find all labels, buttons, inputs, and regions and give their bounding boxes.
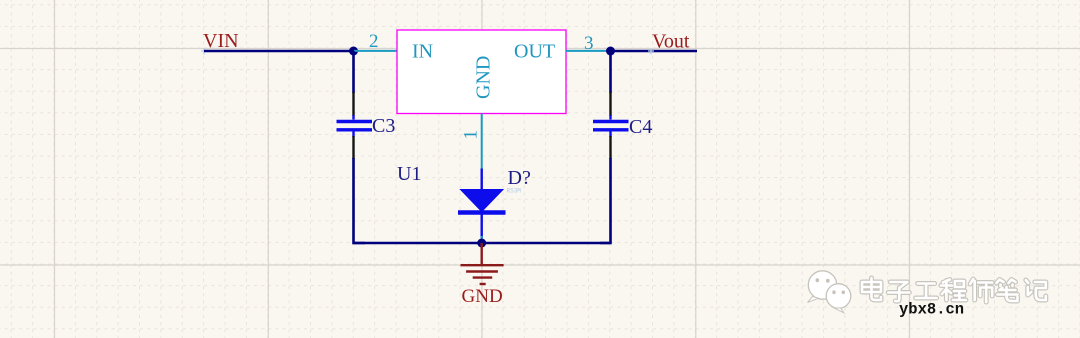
- capacitor C4 symbol: [593, 115, 629, 137]
- wire node B down to C4: [609, 51, 612, 93]
- svg-text:C4: C4: [629, 116, 652, 138]
- svg-text:GND: GND: [473, 56, 495, 99]
- node C junction: [477, 239, 486, 248]
- wire C4 down to bottom rail: [600, 158, 611, 243]
- diode cathode net stub (cyan): [481, 236, 483, 241]
- diode D? anode pin: [481, 169, 483, 191]
- svg-text:VIN: VIN: [203, 30, 239, 52]
- pin 1 line of U1 (GND pin): [481, 114, 483, 170]
- op-amp U1 body box: [397, 30, 566, 114]
- svg-text:D?: D?: [508, 167, 531, 189]
- net anchor cross VIN: [201, 48, 207, 55]
- capacitor C4 pin 2 (black): [609, 136, 611, 159]
- wire VIN to node A: [204, 50, 354, 53]
- node A junction: [349, 47, 358, 56]
- ground symbol: [461, 265, 504, 284]
- svg-text:Vout: Vout: [652, 31, 690, 53]
- capacitor C3 pin 1 (black): [352, 92, 354, 116]
- svg-text:U1: U1: [397, 163, 421, 185]
- diode D? symbol: [458, 190, 506, 213]
- svg-text:1: 1: [461, 130, 482, 140]
- diode D? cathode pin: [481, 214, 483, 238]
- svg-text:GND: GND: [462, 286, 503, 307]
- node B junction: [606, 47, 615, 56]
- capacitor C3 symbol: [337, 115, 373, 137]
- wire node A down to C3: [352, 51, 355, 93]
- wire C3 down to bottom rail: [354, 158, 366, 243]
- svg-text:C3: C3: [372, 115, 395, 137]
- ground wire segment: [481, 243, 483, 265]
- svg-text:ybx8.cn: ybx8.cn: [899, 301, 964, 319]
- capacitor C4 pin 1 (black): [609, 92, 611, 116]
- capacitor C3 pin 2 (black): [352, 136, 354, 159]
- watermark wechat logo: [808, 271, 851, 313]
- svg-text:OUT: OUT: [514, 41, 555, 63]
- wire node B to Vout: [610, 50, 697, 53]
- net anchor cross Vout: [648, 48, 654, 55]
- svg-text:IN: IN: [412, 41, 433, 63]
- watermark text dianzi gongchengshi biji: [862, 278, 1046, 302]
- pin 3 line of U1: [566, 50, 611, 52]
- svg-text:2: 2: [369, 31, 379, 52]
- svg-text:RS3M: RS3M: [507, 188, 522, 195]
- svg-text:3: 3: [584, 33, 594, 54]
- pin 2 line of U1: [354, 50, 397, 52]
- bottom rail wire: [354, 242, 611, 245]
